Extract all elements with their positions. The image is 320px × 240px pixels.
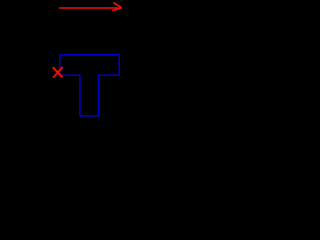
T polygon outline: [60, 55, 119, 116]
X marker stroke 1: [53, 68, 62, 77]
arrow head lower barb: [112, 8, 121, 11]
arrow shaft: [59, 7, 121, 9]
X marker stroke 2: [54, 68, 63, 78]
arrow head upper barb: [113, 3, 121, 8]
